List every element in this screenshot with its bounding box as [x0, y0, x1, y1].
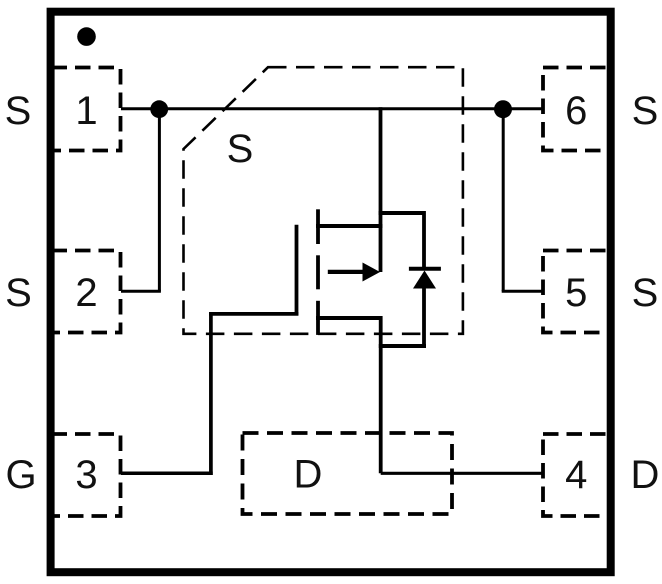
wire source drop to Q1 [379, 107, 383, 272]
net label S pin1 [5, 89, 32, 133]
svg-text:2: 2 [75, 271, 97, 315]
pad 4 [543, 434, 613, 516]
svg-text:S: S [5, 271, 32, 315]
MOSFET Q1 channel segments [316, 209, 320, 335]
body diode D1 cathode bar [409, 267, 441, 271]
pad 5 [543, 251, 613, 333]
pin-1 marker dot [77, 27, 96, 46]
svg-text:4: 4 [565, 453, 587, 497]
wire branch to body diode [379, 211, 424, 269]
pad 6 [543, 68, 613, 151]
wire Q1 drain connection [316, 316, 382, 320]
svg-text:S: S [632, 89, 659, 133]
drain pad label D [294, 453, 323, 497]
body diode D1 anode triangle [413, 271, 436, 289]
pin 4 label [565, 453, 587, 497]
svg-text:G: G [5, 453, 36, 497]
svg-text:3: 3 [75, 453, 97, 497]
MOSFET Q1 body arrow [328, 263, 380, 282]
pin 5 label [565, 271, 587, 315]
pin 2 label [75, 271, 97, 315]
svg-text:5: 5 [565, 271, 587, 315]
pad 3 [52, 434, 121, 516]
die source label S [227, 127, 254, 171]
wire pin 5 [502, 290, 543, 293]
wire gate lead [209, 312, 298, 316]
net label D pin4 [631, 453, 660, 497]
svg-text:S: S [227, 127, 254, 171]
pad 1 [52, 68, 121, 151]
net label G pin3 [5, 453, 36, 497]
svg-text:D: D [294, 453, 323, 497]
wire pin 2 [121, 290, 161, 293]
wire drain vertical to pad D [379, 316, 383, 473]
pad 2 [52, 251, 121, 333]
net label S pin2 [5, 271, 32, 315]
net label S pin5 [632, 271, 659, 315]
junction dot left [150, 100, 168, 118]
pin 1 label [75, 89, 97, 133]
pin 3 label [75, 453, 97, 497]
wire source rail pin1-pin6 [121, 107, 543, 110]
die outline (source metal S) [184, 67, 463, 334]
wire pin 4 drain [381, 472, 543, 475]
svg-text:S: S [5, 89, 32, 133]
wire gate riser [209, 312, 213, 475]
pin 6 label [565, 89, 587, 133]
wire riser to pin 2 [158, 109, 161, 291]
junction dot right [494, 100, 512, 118]
wire Q1 source connection [316, 224, 382, 228]
wire diode anode return [379, 287, 426, 349]
wire pin 3 gate [121, 472, 213, 476]
svg-text:6: 6 [565, 89, 587, 133]
MOSFET Q1 gate electrode [295, 225, 299, 316]
net label S pin6 [632, 89, 659, 133]
svg-text:D: D [631, 453, 660, 497]
wire riser to pin 5 [502, 109, 505, 291]
drain pad D [243, 433, 453, 514]
svg-text:1: 1 [75, 89, 97, 133]
svg-text:S: S [632, 271, 659, 315]
